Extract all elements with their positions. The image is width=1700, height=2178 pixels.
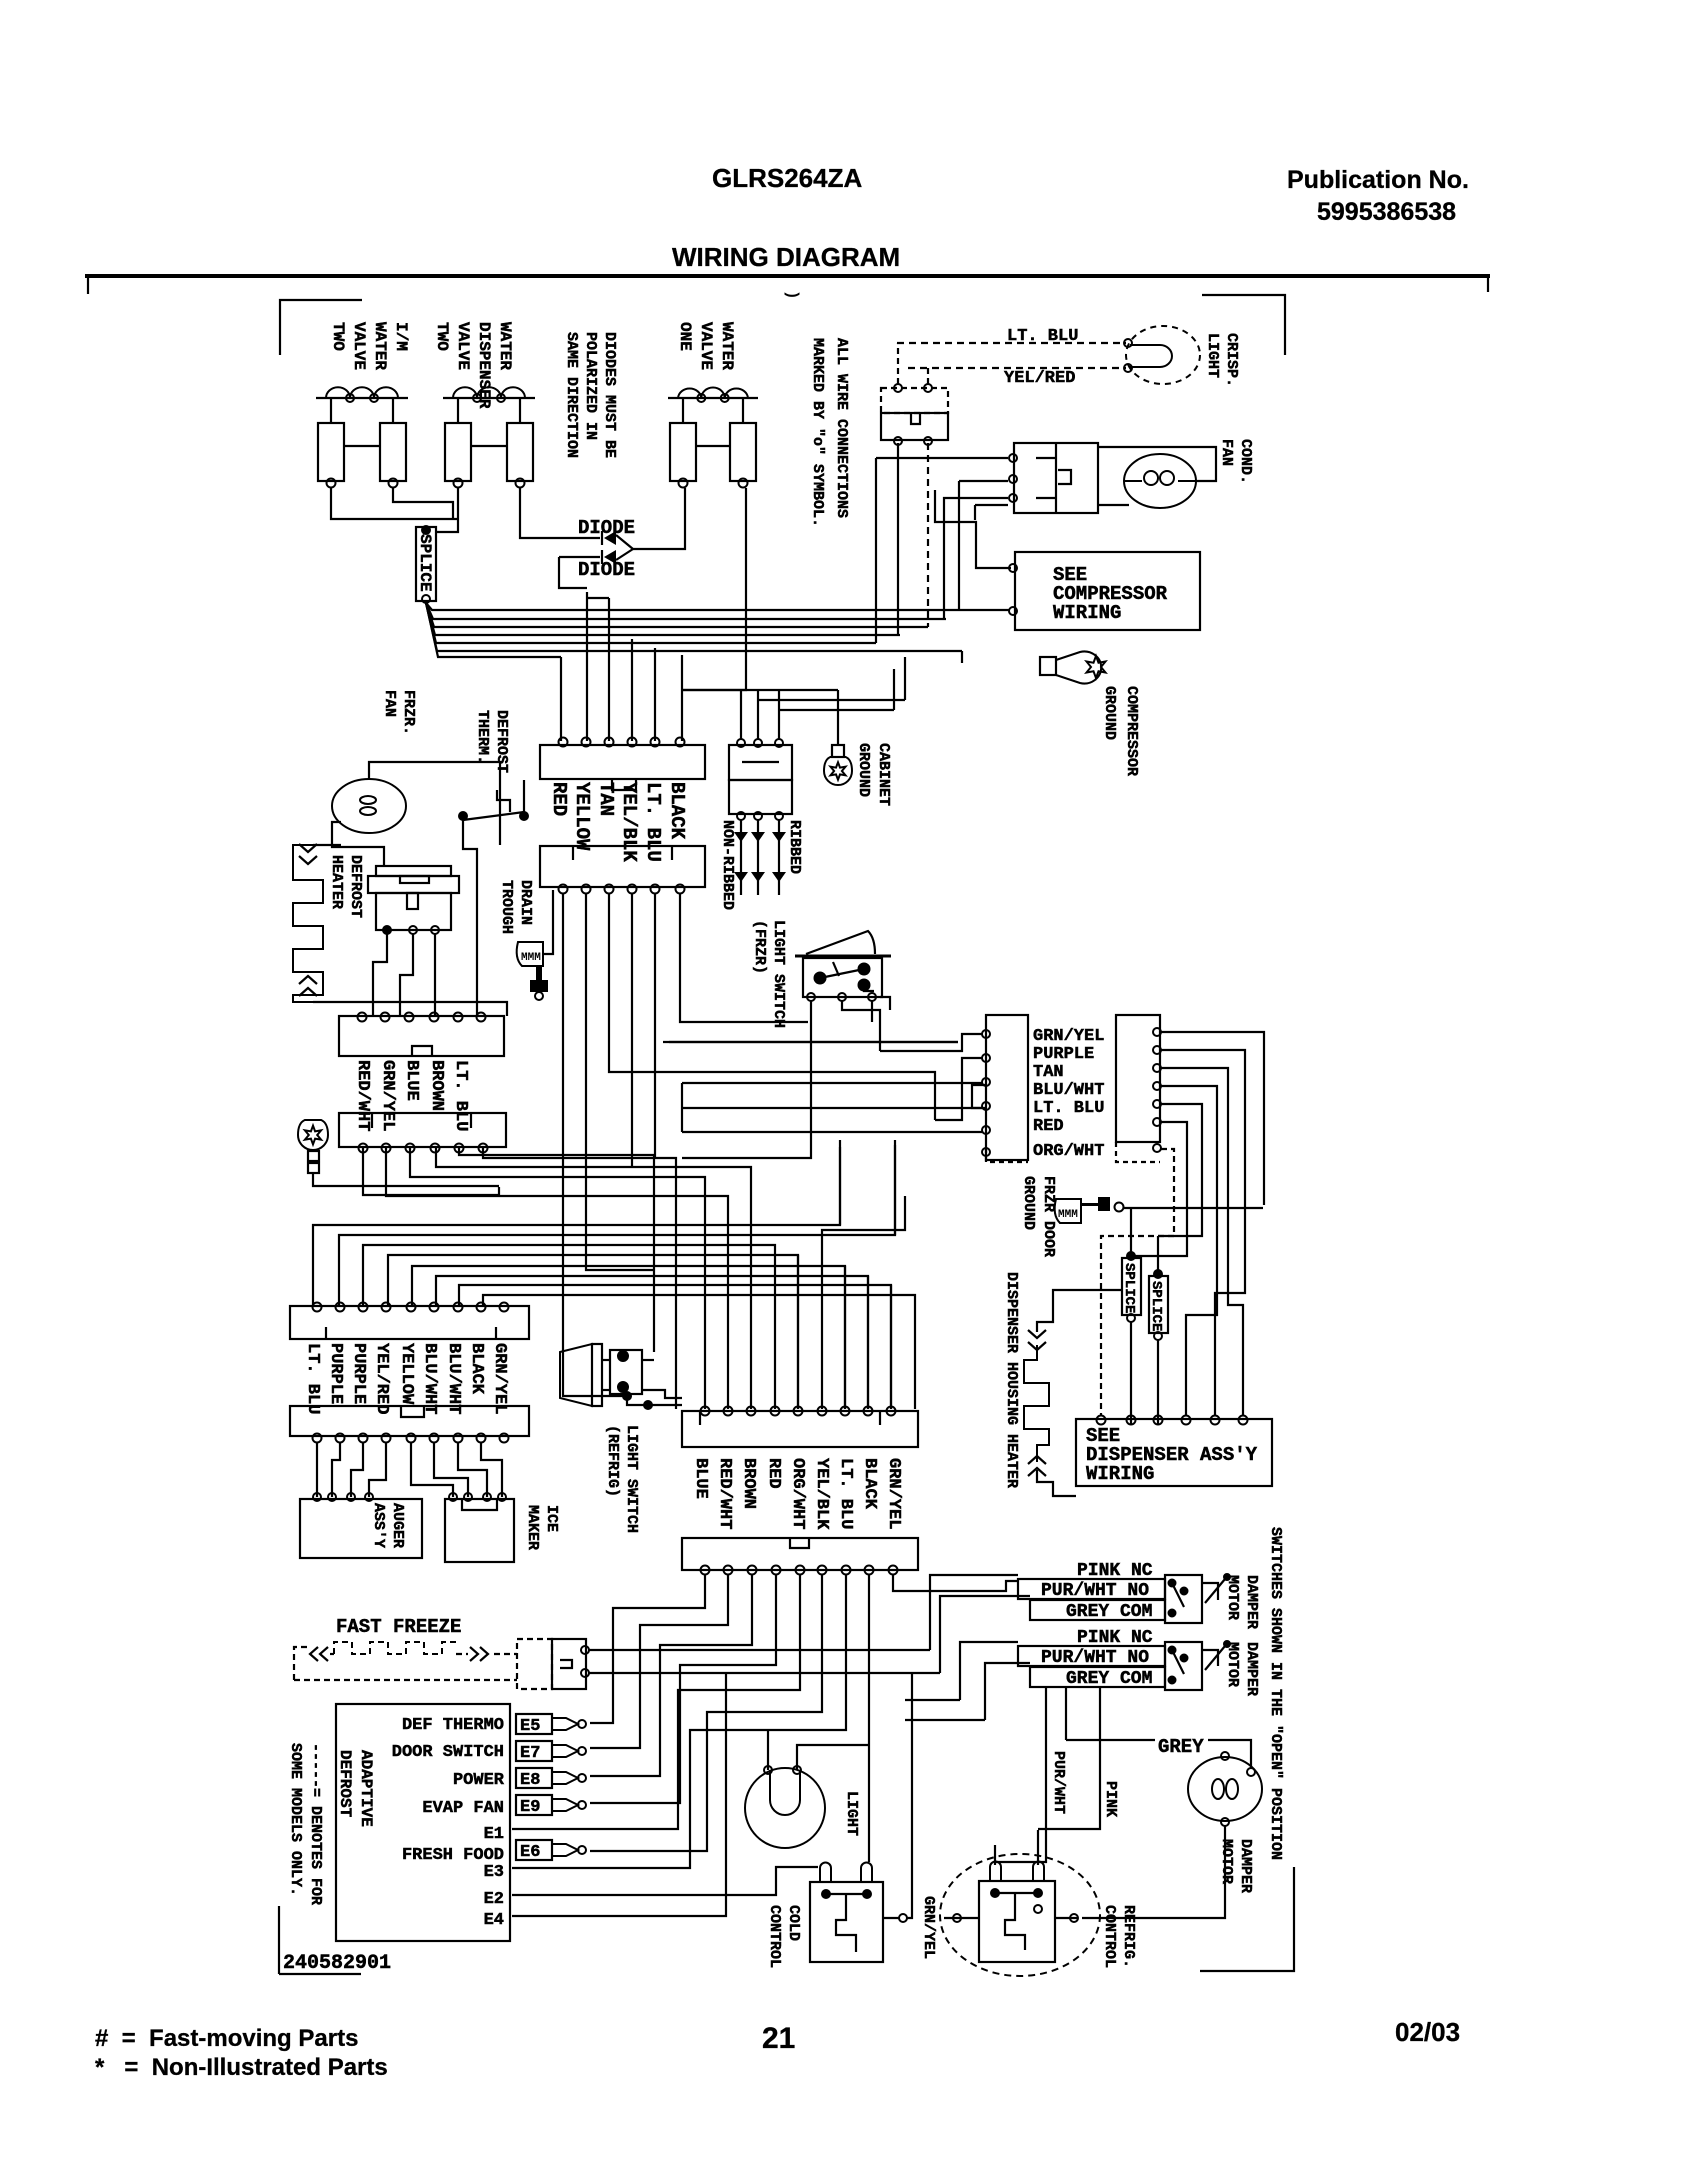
RIBBED label: [786, 820, 803, 874]
connector CA labels: [691, 1458, 710, 1499]
damper feed stubs: [905, 1699, 960, 1701]
svg-text:RIBBED: RIBBED: [786, 820, 803, 874]
svg-text:DEFROST: DEFROST: [347, 855, 364, 918]
REFRIG. CONTROL label: [1101, 1905, 1137, 1968]
svg-text:GRN/YEL: GRN/YEL: [920, 1896, 937, 1959]
svg-text:DIODE: DIODE: [578, 559, 635, 581]
wire into diode D2: [559, 556, 600, 558]
svg-text:FAN: FAN: [1218, 439, 1235, 466]
svg-text:LT. BLU: LT. BLU: [303, 1343, 322, 1414]
connector C4: [339, 1113, 506, 1147]
connector C2: [540, 846, 705, 887]
wire valve C right down: [682, 488, 746, 690]
svg-text:ICE: ICE: [543, 1505, 560, 1532]
wires assembly to connector C3: [373, 934, 387, 1016]
svg-text:GROUND: GROUND: [1020, 1176, 1037, 1230]
svg-text:GROUND: GROUND: [1101, 686, 1118, 740]
dispenser housing heater element: [1024, 1345, 1049, 1462]
svg-text:MMM: MMM: [1058, 1209, 1078, 1221]
crisp light label: [1204, 333, 1240, 387]
wire staircase into connector C5: [313, 1140, 840, 1305]
svg-text:DEFROST: DEFROST: [493, 710, 510, 773]
svg-text:WIRING: WIRING: [1086, 1463, 1154, 1485]
svg-text:(FRZR): (FRZR): [751, 920, 768, 974]
wire valve B right to diode D1: [520, 488, 600, 538]
ice maker label: [524, 1505, 560, 1550]
wires light switch refrig: [642, 1359, 654, 1361]
svg-text:FAST FREEZE: FAST FREEZE: [336, 1616, 461, 1638]
svg-text:FRZR.: FRZR.: [400, 690, 417, 735]
ice maker box: [445, 1499, 514, 1562]
fast freeze dashed loop: [294, 1647, 308, 1680]
svg-text:CRISP.: CRISP.: [1223, 333, 1240, 387]
DRAIN TROUGH label: [498, 880, 534, 934]
wire freezer ground: [313, 1173, 499, 1186]
svg-text:CONTROL: CONTROL: [1101, 1905, 1118, 1968]
defrost heater assembly terminals: [383, 926, 391, 934]
svg-text:LIGHT SWITCH: LIGHT SWITCH: [770, 920, 787, 1028]
svg-text:MOTOR: MOTOR: [1224, 1642, 1241, 1687]
svg-text:E8: E8: [520, 1771, 540, 1790]
wires refrig control: [994, 1845, 996, 1865]
svg-text:Publication No.: Publication No.: [1287, 166, 1469, 194]
svg-text:WATER: WATER: [371, 322, 389, 370]
light switch refrig symbol: [560, 1344, 592, 1406]
DAMPER MOTOR label: [1218, 1839, 1254, 1893]
SEE COMPRESSOR WIRING box: [1015, 552, 1200, 630]
svg-text:GROUND: GROUND: [855, 743, 872, 797]
svg-text:DEF THERMO: DEF THERMO: [402, 1716, 504, 1735]
svg-text:): ): [783, 290, 801, 300]
svg-text:(REFRIG): (REFRIG): [604, 1425, 621, 1497]
risers above connector CA: [822, 1196, 905, 1409]
svg-text:SPLICE: SPLICE: [416, 534, 434, 592]
DEFROST THERM. label: [474, 710, 510, 773]
wire verticals below connector C2: [562, 893, 564, 1390]
cabinet ground lug: [832, 745, 844, 757]
defrost heater element: [293, 845, 323, 1002]
svg-text:THERM.: THERM.: [474, 710, 491, 764]
svg-text:BLUE: BLUE: [402, 1060, 421, 1101]
diode D2: [601, 550, 603, 564]
wire relay T2 riser: [958, 481, 960, 610]
wire risers into connector C1: [560, 657, 562, 741]
svg-text:GREY COM: GREY COM: [1066, 1602, 1152, 1622]
svg-text:EVAP FAN: EVAP FAN: [422, 1799, 504, 1818]
wire ribbed t2 to band: [758, 699, 905, 701]
wires splices: [1130, 1322, 1132, 1425]
compressor relay/overload: [1014, 443, 1098, 513]
solenoid valve I/M TWO: terminals: [327, 479, 336, 488]
compressor ground label: [1101, 686, 1140, 776]
svg-text:LT. BLU: LT. BLU: [642, 782, 664, 862]
svg-text:YELLOW: YELLOW: [571, 782, 593, 851]
refrig control (dashed ellipse): [940, 1854, 1100, 1976]
svg-text:WIRING DIAGRAM: WIRING DIAGRAM: [672, 242, 900, 272]
wire drain trough: [543, 890, 553, 954]
LIGHT SWITCH (REFRIG) label: [604, 1425, 640, 1533]
freezer LIGHT bulb: [745, 1768, 825, 1848]
connector C1 wire labels: [548, 782, 570, 816]
DEFROST HEATER label: [328, 855, 364, 918]
svg-text:# = Fast-moving Parts: # = Fast-moving Parts: [95, 2025, 358, 2052]
DENOTES note: [287, 1743, 324, 1905]
wire lsw frzr loop: [880, 997, 890, 1010]
defrost thermostat contacts: [459, 812, 467, 820]
wire relay T3 riser: [943, 503, 945, 619]
svg-text:PURPLE: PURPLE: [349, 1343, 368, 1404]
wire crisp-conn right riser (dashed): [927, 443, 929, 627]
solenoid valve WATER ONE: coil: [668, 397, 758, 399]
svg-text:FRZR DOOR: FRZR DOOR: [1040, 1176, 1057, 1257]
svg-text:LIGHT SWITCH: LIGHT SWITCH: [623, 1425, 640, 1533]
SWITCHES SHOWN IN THE OPEN POSITION label: [1267, 1527, 1284, 1860]
solenoid valve WATER TWO: body: [457, 398, 459, 423]
svg-text:AUGER: AUGER: [389, 1503, 406, 1548]
wires below connector CB: [590, 1574, 705, 1723]
svg-text:GRN/YEL: GRN/YEL: [490, 1343, 509, 1414]
right bundle wires to damper switches: [930, 1575, 1018, 1650]
svg-text:E6: E6: [520, 1843, 540, 1862]
defrost therm callout step: [497, 790, 510, 812]
svg-text:-----= DENOTES FOR: -----= DENOTES FOR: [307, 1743, 324, 1905]
PINK label: [1102, 1781, 1119, 1817]
svg-text:PUR/WHT NO: PUR/WHT NO: [1041, 1581, 1149, 1601]
junction dots near CA: [623, 1392, 631, 1400]
cond fan label: [1218, 439, 1254, 484]
svg-text:GRN/YEL: GRN/YEL: [378, 1060, 397, 1131]
svg-text:DIODE: DIODE: [578, 517, 635, 539]
connector C5 (9 term): [290, 1306, 529, 1339]
wire valve B left down: [436, 488, 458, 532]
svg-text:GREY COM: GREY COM: [1066, 1669, 1152, 1689]
svg-text:E1: E1: [484, 1825, 504, 1844]
wires dispenser heater: [1037, 1290, 1122, 1332]
wire fan top riser: [369, 762, 500, 845]
FRZR. FAN label: [381, 690, 417, 735]
crisp light lamp (dashed ellipse): [1126, 326, 1200, 384]
wire YEL/RED dashed: [908, 367, 1126, 369]
LIGHT SWITCH (FRZR) label: [751, 920, 787, 1028]
svg-text:LT. BLU: LT. BLU: [1033, 1099, 1104, 1118]
non-ribbed wire arrows: [740, 820, 742, 895]
fast freeze connector: [517, 1639, 552, 1689]
wire thermostat right up: [523, 780, 525, 812]
svg-text:HEATER: HEATER: [328, 855, 345, 909]
svg-text:VALVE: VALVE: [454, 322, 472, 370]
freezer door connector right: [1116, 1015, 1160, 1142]
svg-text:BROWN: BROWN: [739, 1458, 758, 1509]
wire ribbed t3 to compressor lead: [779, 709, 894, 711]
corner bracket top-right: [1202, 295, 1285, 355]
wire feeds to ribbed connector and cabinet ground: [682, 689, 838, 691]
svg-text:BLACK: BLACK: [860, 1458, 879, 1510]
svg-text:WATER: WATER: [718, 322, 736, 370]
connector C5 labels: [303, 1343, 322, 1414]
svg-text:SWITCHES SHOWN IN THE "OPEN" P: SWITCHES SHOWN IN THE "OPEN" POSITION: [1267, 1527, 1284, 1860]
wire crisp-conn left riser: [897, 443, 899, 635]
PUR/WHT label: [1050, 1751, 1067, 1814]
svg-text:DAMPER: DAMPER: [1243, 1642, 1260, 1696]
solenoid valve I/M TWO: body: [330, 398, 332, 423]
mid risers x840 x895: [839, 1147, 841, 1225]
svg-text:PUR/WHT: PUR/WHT: [1050, 1751, 1067, 1814]
svg-text:DEFROST: DEFROST: [336, 1750, 354, 1818]
auger assembly box: [300, 1499, 422, 1558]
title rule: [85, 274, 1490, 278]
svg-text:E2: E2: [484, 1890, 504, 1909]
wires C6 to ice maker: [411, 1442, 453, 1497]
svg-text:DIODES MUST BE: DIODES MUST BE: [601, 332, 618, 458]
svg-text:DRAIN: DRAIN: [517, 880, 534, 925]
svg-text:BLACK: BLACK: [666, 782, 688, 840]
svg-text:GREY: GREY: [1158, 1736, 1204, 1758]
splice S2: [1122, 1258, 1141, 1315]
note DIODES MUST BE POLARIZED IN SAME DIRECTION: [563, 332, 618, 458]
wires cold control: [512, 1867, 818, 1895]
svg-text:PURPLE: PURPLE: [326, 1343, 345, 1404]
drain trough grommet: [530, 966, 548, 992]
solenoid valve WATER ONE: terminals: [679, 479, 688, 488]
light switch frzr symbol: [795, 955, 891, 958]
svg-text:240582901: 240582901: [283, 1952, 391, 1975]
wire box terminal 1 staircase: [935, 490, 1011, 568]
wire grey: [1066, 1739, 1155, 1741]
svg-text:LT. BLU: LT. BLU: [451, 1060, 470, 1131]
svg-text:21: 21: [762, 2022, 795, 2055]
svg-text:LT. BLU: LT. BLU: [836, 1458, 855, 1529]
svg-text:YEL/RED: YEL/RED: [1004, 369, 1075, 388]
svg-text:MARKED BY "o" SYMBOL.: MARKED BY "o" SYMBOL.: [809, 338, 826, 527]
wires freezer door connector right side: [1161, 1032, 1264, 1205]
svg-text:WATER: WATER: [496, 322, 514, 370]
svg-text:YEL/BLK: YEL/BLK: [812, 1458, 831, 1530]
NON-RIBBED label: [719, 820, 736, 910]
adaptive defrost board: [336, 1704, 510, 1941]
cold control right stub: [883, 1917, 900, 1919]
svg-text:RED: RED: [1033, 1117, 1064, 1136]
solenoid valve WATER TWO: terminals: [454, 479, 463, 488]
solenoid valve WATER TWO: label: [433, 322, 514, 409]
defrost heater assembly: [376, 866, 451, 876]
svg-text:ASS'Y: ASS'Y: [370, 1503, 387, 1548]
svg-text:PINK: PINK: [1102, 1781, 1119, 1817]
svg-text:E5: E5: [520, 1717, 540, 1736]
svg-text:MMM: MMM: [521, 952, 541, 964]
corner bracket bottom-right: [1200, 1867, 1294, 1971]
svg-text:YEL/BLK: YEL/BLK: [618, 782, 640, 862]
svg-text:BLACK: BLACK: [467, 1343, 486, 1395]
frzr door ground element: [1055, 1199, 1081, 1223]
svg-text:BLU/WHT: BLU/WHT: [444, 1343, 463, 1414]
svg-text:POWER: POWER: [453, 1771, 505, 1790]
connector C3: [339, 1016, 504, 1056]
freezer ground lug: [308, 1151, 319, 1161]
svg-text:LT. BLU: LT. BLU: [1007, 327, 1078, 346]
svg-text:ONE: ONE: [676, 322, 694, 351]
svg-text:E9: E9: [520, 1798, 540, 1817]
damper switch 2 mechanism: [1165, 1642, 1202, 1690]
bracket + part number: [278, 1906, 280, 1974]
svg-text:ORG/WHT: ORG/WHT: [788, 1458, 807, 1529]
svg-text:COMPRESSOR: COMPRESSOR: [1123, 686, 1140, 776]
svg-text:BROWN: BROWN: [427, 1060, 446, 1111]
svg-text:GLRS264ZA: GLRS264ZA: [712, 163, 862, 193]
note ALL WIRE CONNECTIONS MARKED BY o SYMBOL: [809, 338, 850, 527]
wire damper motor to refrig control: [1082, 1826, 1225, 1918]
svg-text:5995386538: 5995386538: [1317, 198, 1456, 226]
cold control box: [810, 1882, 883, 1962]
diode output node wires: [616, 488, 685, 549]
diode D1: [601, 531, 603, 545]
svg-text:FAN: FAN: [381, 690, 398, 717]
wire fan bottom: [332, 822, 384, 866]
connector C3 labels: [353, 1060, 372, 1131]
svg-text:TWO: TWO: [433, 322, 451, 351]
svg-text:YELLOW: YELLOW: [397, 1343, 416, 1405]
PUR/WHT PINK risers: [995, 1686, 1046, 1862]
LIGHT label: [843, 1791, 860, 1836]
svg-text:BLU/WHT: BLU/WHT: [1033, 1081, 1104, 1100]
svg-text:LIGHT: LIGHT: [843, 1791, 860, 1836]
freezer door connector left: [986, 1015, 1028, 1160]
wire heater bottom to connector: [313, 1002, 507, 1016]
wire bundle from splice S1 fanning right: [426, 603, 1009, 610]
svg-text:TWO: TWO: [329, 322, 347, 351]
svg-text:ADAPTIVE: ADAPTIVE: [357, 1750, 375, 1827]
refrig control stubs: [944, 1917, 979, 1919]
svg-text:BLUE: BLUE: [691, 1458, 710, 1499]
svg-text:GRN/YEL: GRN/YEL: [1033, 1027, 1104, 1046]
svg-text:SOME MODELS ONLY.: SOME MODELS ONLY.: [287, 1743, 304, 1896]
COLD CONTROL label: [766, 1905, 802, 1968]
svg-text:E4: E4: [484, 1911, 504, 1930]
damper switch 1 mechanism: [1165, 1575, 1202, 1623]
svg-text:SAME DIRECTION: SAME DIRECTION: [563, 332, 580, 458]
svg-text:REFRIG.: REFRIG.: [1120, 1905, 1137, 1968]
wires relay to cond fan: [1098, 447, 1216, 481]
connector C6 (9 term): [290, 1406, 529, 1436]
freezer door connector left notch: [972, 1085, 986, 1108]
crisp light connector: [881, 388, 948, 413]
svg-text:PUR/WHT NO: PUR/WHT NO: [1041, 1648, 1149, 1668]
svg-text:NON-RIBBED: NON-RIBBED: [719, 820, 736, 910]
wire loop below diode D2: [559, 557, 587, 588]
svg-text:CABINET: CABINET: [875, 743, 892, 806]
wire heater top: [313, 844, 341, 846]
wires C6 to auger assy: [316, 1442, 318, 1497]
dashed risers to crisp light: [897, 343, 899, 384]
ADAPTIVE DEFROST label: [336, 1750, 375, 1827]
svg-text:DAMPER: DAMPER: [1237, 1839, 1254, 1893]
svg-text:TAN: TAN: [595, 782, 617, 816]
wire into relay T3: [944, 498, 1008, 503]
svg-text:RED/WHT: RED/WHT: [353, 1060, 372, 1131]
SEE DISPENSER ASSY WIRING box: [1076, 1419, 1272, 1486]
wire valve A left to splice S1: [331, 488, 458, 519]
wire LT. BLU dashed: [897, 342, 1126, 344]
wires damper switch outputs: [1202, 1583, 1218, 1600]
drain trough heater element: [517, 942, 543, 966]
solenoid valve WATER ONE: body: [682, 398, 684, 423]
connector CA: [682, 1411, 918, 1447]
svg-text:TROUGH: TROUGH: [498, 880, 515, 934]
damper motor callout 1: [1205, 1579, 1225, 1603]
svg-text:POLARIZED IN: POLARIZED IN: [582, 332, 599, 440]
svg-text:ORG/WHT: ORG/WHT: [1033, 1142, 1104, 1161]
wires from fast freeze connector: [589, 1649, 930, 1651]
svg-text:CONTROL: CONTROL: [766, 1905, 783, 1968]
svg-text:02/03: 02/03: [1395, 2017, 1460, 2047]
solenoid valve WATER TWO: coil: [443, 397, 535, 399]
long risers up to freezer door connector left: [880, 1034, 982, 1051]
wires from light switch frzr down: [682, 1001, 811, 1158]
freezer fan motor: [332, 779, 406, 833]
svg-text:TAN: TAN: [1033, 1063, 1064, 1082]
svg-text:I/M: I/M: [392, 322, 410, 351]
wire bundle from connector C4 to center: [363, 1148, 499, 1195]
svg-text:DOOR SWITCH: DOOR SWITCH: [392, 1743, 504, 1762]
damper motor callout 2: [1205, 1646, 1225, 1670]
dashed wire ORG/WHT: [1101, 1149, 1174, 1415]
svg-text:MAKER: MAKER: [524, 1505, 541, 1550]
damper motor: [1188, 1757, 1262, 1821]
GRN/YEL label vertical: [920, 1896, 937, 1959]
svg-text:MOTOR: MOTOR: [1218, 1839, 1235, 1884]
stray paren mark: [783, 290, 801, 300]
svg-text:SPLICE: SPLICE: [1121, 1263, 1137, 1313]
svg-text:DISPENSER HOUSING HEATER: DISPENSER HOUSING HEATER: [1003, 1272, 1020, 1488]
compressor ground lug: [663, 1041, 958, 1043]
svg-text:RED: RED: [548, 782, 570, 816]
wire into relay T2: [959, 480, 1008, 482]
svg-text:RED: RED: [764, 1458, 783, 1489]
svg-text:COND.: COND.: [1237, 439, 1254, 484]
connector CB: [682, 1538, 918, 1570]
splice S1: [416, 527, 436, 601]
left stubs for freezer conn rows: [681, 1083, 683, 1132]
wire thermostat left down: [463, 820, 477, 1016]
cond fan motor: [1124, 454, 1196, 508]
svg-text:MOTOR: MOTOR: [1224, 1575, 1241, 1620]
ribbed/non-ribbed connector: [729, 745, 792, 780]
DISPENSER HOUSING HEATER label: [1003, 1272, 1020, 1488]
svg-text:E3: E3: [484, 1863, 504, 1882]
wire valve A right down: [393, 488, 453, 519]
solenoid valve I/M TWO: label: [329, 322, 410, 370]
cabinet ground label: [855, 743, 892, 806]
svg-text:RED/WHT: RED/WHT: [715, 1458, 734, 1529]
svg-text:* = Non-Illustrated Parts: * = Non-Illustrated Parts: [95, 2054, 388, 2081]
svg-text:WIRING: WIRING: [1053, 602, 1121, 624]
svg-text:SPLICE: SPLICE: [1148, 1281, 1164, 1331]
wire to compressor ground: [961, 651, 963, 663]
svg-text:VALVE: VALVE: [697, 322, 715, 370]
splice S3: [1149, 1276, 1168, 1333]
solenoid valve WATER ONE: label: [676, 322, 736, 370]
svg-text:ALL WIRE CONNECTIONS: ALL WIRE CONNECTIONS: [833, 338, 850, 518]
svg-text:VALVE: VALVE: [350, 322, 368, 370]
svg-text:PURPLE: PURPLE: [1033, 1045, 1094, 1064]
FRZR DOOR GROUND label: [1020, 1176, 1057, 1257]
svg-text:E7: E7: [520, 1744, 540, 1763]
wire relay T1 riser: [875, 458, 877, 643]
spade terminals E5 E7 E8 E9 E6: [516, 1714, 552, 1734]
svg-text:LIGHT: LIGHT: [1204, 333, 1221, 378]
svg-text:YEL/RED: YEL/RED: [372, 1343, 391, 1414]
corner bracket top-left: [280, 300, 362, 355]
svg-text:BLU/WHT: BLU/WHT: [420, 1343, 439, 1414]
